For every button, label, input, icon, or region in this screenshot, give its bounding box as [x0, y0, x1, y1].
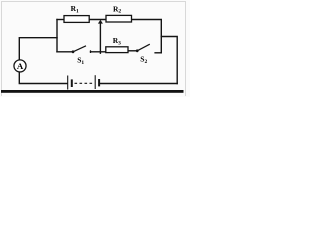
wire: junction vertical (node between R1,R2 down to middle row) — [99, 22, 101, 53]
svg-text:A: A — [17, 61, 24, 71]
wire: R3 to S2 pivot — [128, 50, 137, 52]
wire: top row left lead — [57, 19, 64, 21]
resistor R1 — [64, 16, 89, 23]
wire: S2 right contact stub — [155, 52, 161, 54]
resistor R3 — [106, 47, 128, 53]
battery cell 1 — [68, 76, 72, 90]
switch S2 — [136, 44, 150, 52]
wire: R2 to top-right corner, down — [132, 20, 162, 53]
page frame — [2, 2, 186, 97]
wire: S1 left lead — [57, 51, 73, 53]
ammeter A1 — [14, 60, 26, 72]
switch S1 — [72, 46, 91, 53]
wire: right branch to battery return — [161, 37, 177, 84]
svg-text:S1: S1 — [77, 56, 84, 66]
wire: left node (ammeter up to branches) — [19, 38, 57, 60]
svg-text:R3: R3 — [113, 36, 121, 46]
wire: bottom row (battery loop) — [19, 72, 67, 84]
svg-text:R2: R2 — [113, 4, 121, 14]
battery cell 2 — [95, 75, 99, 89]
wire: between R1 and R2 — [89, 19, 106, 21]
svg-text:R1: R1 — [71, 4, 79, 14]
battery dashed link — [75, 82, 94, 84]
wire: battery to right corner — [100, 83, 177, 85]
resistor R2 — [106, 15, 132, 22]
svg-text:S2: S2 — [140, 55, 147, 65]
junction arrow (node between R1 and R2) — [98, 20, 103, 24]
wire: left vertical joining top and middle rows — [56, 20, 58, 52]
bottom thick rule — [1, 90, 184, 93]
wire: S1 right lead — [91, 51, 106, 53]
